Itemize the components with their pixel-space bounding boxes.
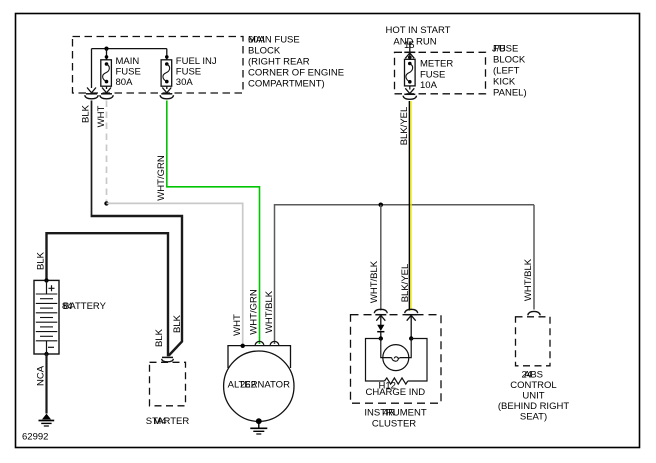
svg-text:CONTROL: CONTROL	[510, 380, 556, 391]
connector: WHT/GRN exit	[160, 88, 173, 99]
wire: WHT/GRN from fuel inj fuse to alternator	[167, 101, 260, 345]
svg-text:M4: M4	[153, 416, 166, 427]
connector: cluster right entry (cup, bar, up arrow)	[405, 309, 418, 320]
wire: lamp loop left	[366, 339, 385, 382]
node: alternator WHT dot	[241, 344, 245, 348]
svg-text:CHARGE IND: CHARGE IND	[366, 387, 426, 398]
svg-text:WHT/BLK: WHT/BLK	[264, 290, 275, 333]
ABS control unit dashed box	[516, 317, 551, 366]
svg-text:WHT: WHT	[96, 105, 107, 127]
svg-text:WHT/GRN: WHT/GRN	[156, 155, 167, 201]
connector: alternator WHT/BLK bump	[270, 341, 279, 345]
svg-text:WHT/GRN: WHT/GRN	[249, 289, 260, 335]
ground: battery	[42, 414, 51, 420]
svg-text:FUEL INJ: FUEL INJ	[176, 56, 217, 67]
wire: BLK from fuse block down	[91, 101, 93, 216]
svg-text:AND RUN: AND RUN	[393, 37, 436, 48]
svg-text:BLK/YEL: BLK/YEL	[399, 107, 410, 146]
node: cluster left dot	[379, 336, 383, 340]
node: F2 entry dot	[165, 55, 169, 59]
wire: WHT solid to alternator	[107, 203, 243, 345]
wire: WHT/BLK drop to ABS unit	[533, 205, 535, 310]
wire: BLK/YEL yellow line	[410, 101, 412, 311]
svg-text:J/B: J/B	[492, 44, 506, 55]
node: meter fuse entry dot	[408, 56, 412, 60]
connector: BLK exit (arrow, bar, cup)	[85, 88, 98, 99]
wire: diode to junction	[380, 332, 382, 339]
svg-text:SEAT): SEAT)	[520, 412, 547, 423]
battery minus	[48, 346, 54, 348]
svg-text:KICK: KICK	[493, 77, 516, 88]
svg-text:BLK/YEL: BLK/YEL	[400, 264, 411, 303]
wire: WHT dashed from main fuse	[106, 101, 108, 202]
svg-text:FUSE: FUSE	[420, 69, 445, 80]
connector: starter terminal (bar + cup)	[162, 357, 174, 361]
fuse FUEL INJ FUSE 30A body	[161, 60, 172, 86]
hot feed wire into meter fuse	[409, 42, 411, 53]
wire: fuse block internal bus	[92, 48, 167, 50]
svg-text:METER: METER	[420, 59, 453, 70]
svg-text:BLK: BLK	[172, 314, 183, 333]
svg-text:WHT: WHT	[232, 314, 243, 336]
wire: battery positive BLK to starter (heavy)	[47, 233, 169, 356]
alternator circle	[224, 351, 294, 421]
wire: BLK to starter (heavy)	[91, 216, 182, 356]
alternator box	[228, 346, 291, 368]
wire: battery NCA to ground	[45, 354, 47, 414]
svg-text:BLOCK: BLOCK	[493, 55, 526, 66]
connector: meter fuse hot entry (bar + up arrow)	[404, 52, 415, 58]
battery	[34, 280, 59, 354]
svg-text:(BEHIND RIGHT: (BEHIND RIGHT	[498, 401, 569, 412]
svg-text:80A: 80A	[116, 77, 134, 88]
svg-text:15: 15	[404, 40, 415, 51]
node: F1 entry dot	[105, 55, 109, 59]
svg-text:24: 24	[522, 370, 533, 381]
wire: WHT/BLK drop to instrument cluster	[380, 205, 382, 311]
wire: fuse F2 top stem	[166, 49, 168, 60]
svg-text:BLK: BLK	[81, 104, 92, 123]
meter fuse block dashed box	[395, 52, 486, 94]
wire: fuse F1 top stem	[106, 49, 108, 60]
svg-text:MAIN: MAIN	[116, 56, 140, 67]
svg-text:WHT/BLK: WHT/BLK	[369, 260, 380, 303]
wire: lamp loop right	[408, 339, 427, 382]
svg-text:NCA: NCA	[36, 365, 47, 386]
svg-text:CLUSTER: CLUSTER	[372, 419, 416, 430]
node: WHT junction dot	[104, 201, 108, 205]
wire: bulb left lead	[381, 339, 392, 358]
svg-text:BLK: BLK	[154, 328, 165, 347]
connector: WHT exit	[100, 88, 113, 99]
connector: ABS entry cup	[528, 311, 540, 315]
svg-text:BLK: BLK	[36, 251, 47, 270]
node: WHT/BLK junction dot	[379, 203, 384, 208]
svg-text:62992: 62992	[22, 432, 48, 443]
ground: alternator	[256, 418, 262, 424]
instrument cluster dashed box	[351, 315, 442, 404]
svg-text:COMPARTMENT): COMPARTMENT)	[248, 79, 325, 90]
svg-text:4R: 4R	[383, 408, 395, 419]
svg-text:(RIGHT REAR: (RIGHT REAR	[248, 57, 310, 68]
connector: cluster left entry (cup, bar, up arrow)	[374, 309, 387, 320]
svg-text:WHT/BLK: WHT/BLK	[523, 258, 534, 301]
wire: F2 bottom stem	[166, 86, 168, 89]
node: cluster right dot	[409, 336, 413, 340]
bulb filament loop	[392, 357, 400, 361]
wire: F1 bottom stem	[106, 86, 108, 89]
wire: bulb right lead	[400, 339, 411, 358]
wire: cluster right drop	[410, 316, 412, 339]
svg-text:UNIT: UNIT	[522, 391, 544, 402]
svg-text:STARTER: STARTER	[146, 416, 190, 427]
wire: meter fuse top stem	[409, 53, 411, 60]
connector: alternator WHT/GRN bump	[255, 341, 264, 345]
svg-text:CORNER OF ENGINE: CORNER OF ENGINE	[248, 68, 344, 79]
diode	[377, 325, 384, 331]
wire: cluster left drop to diode	[380, 316, 382, 325]
svg-text:PANEL): PANEL)	[493, 88, 527, 99]
svg-text:BLOCK: BLOCK	[248, 46, 281, 57]
svg-text:INSTRUMENT: INSTRUMENT	[364, 408, 426, 419]
svg-text:(LEFT: (LEFT	[493, 66, 520, 77]
svg-text:84: 84	[62, 301, 73, 312]
wire: BLK/YEL black line	[408, 101, 410, 311]
battery plus	[49, 285, 55, 291]
main fuse block dashed box	[73, 37, 244, 94]
svg-text:60A: 60A	[248, 35, 266, 46]
svg-text:ALTERNATOR: ALTERNATOR	[228, 380, 290, 391]
wire: WHT/BLK alternator up and right	[275, 205, 535, 344]
wire: bus drop to BLK connector	[91, 49, 93, 88]
svg-text:HOT IN START: HOT IN START	[386, 25, 451, 36]
node: bus junction dot	[104, 47, 108, 51]
svg-text:30A: 30A	[176, 77, 194, 88]
svg-text:10A: 10A	[420, 80, 438, 91]
wire: meter fuse bottom stem	[409, 86, 411, 90]
svg-text:262: 262	[240, 380, 256, 391]
bulb circle	[383, 345, 409, 371]
fuse MAIN FUSE 80A body	[101, 60, 112, 86]
connector: meter fuse exit (arrow, bar, cup)	[403, 88, 416, 99]
resistor (charge ind)	[385, 378, 408, 384]
starter dashed box	[150, 362, 186, 406]
fuse METER FUSE 10A body	[405, 59, 416, 86]
